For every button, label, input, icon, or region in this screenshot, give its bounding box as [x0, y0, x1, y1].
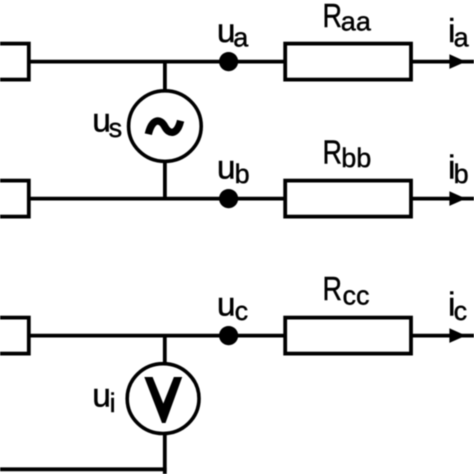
svg-text:R: R [323, 271, 343, 308]
terminal box B (left, row b) [0, 181, 29, 217]
svg-text:c: c [235, 296, 249, 326]
svg-text:a: a [454, 23, 470, 53]
svg-text:s: s [109, 113, 123, 143]
resistor R_aa [285, 44, 411, 80]
svg-text:u: u [217, 286, 236, 323]
wire voltmeter vertical [163, 336, 167, 474]
voltmeter U_i circle [127, 364, 199, 434]
terminal box C (left, row c) [0, 318, 29, 354]
svg-text:cc: cc [343, 281, 370, 311]
wire row c left [29, 334, 285, 338]
wire row a left [29, 60, 285, 64]
wire bottom return [0, 467, 167, 471]
arrow i_a [449, 54, 465, 69]
resistor R_cc [285, 318, 411, 354]
svg-text:R: R [323, 0, 343, 35]
node u_b dot [219, 189, 238, 208]
svg-text:u: u [217, 150, 236, 187]
wire row b right [411, 197, 474, 201]
ac source tilde [148, 121, 180, 134]
svg-text:c: c [454, 296, 468, 326]
svg-text:aa: aa [341, 6, 372, 36]
wire row a right [411, 60, 474, 64]
node u_a dot [219, 52, 238, 71]
arrow i_b [449, 191, 465, 206]
svg-text:b: b [235, 159, 250, 189]
wire row c right [411, 334, 474, 338]
ac source U_s [129, 91, 202, 162]
node u_c dot [219, 326, 238, 345]
wire row b left [29, 197, 285, 201]
voltmeter V glyph [144, 377, 182, 423]
svg-text:u: u [92, 377, 111, 414]
svg-text:b: b [454, 159, 469, 189]
svg-text:i: i [110, 388, 116, 418]
terminal box A (left, row a) [0, 44, 29, 80]
resistor R_bb [285, 181, 411, 217]
svg-text:R: R [323, 134, 343, 171]
arrow i_c [449, 328, 465, 343]
svg-text:a: a [233, 23, 249, 53]
svg-text:bb: bb [341, 143, 371, 173]
wire AC source vertical [163, 62, 167, 199]
